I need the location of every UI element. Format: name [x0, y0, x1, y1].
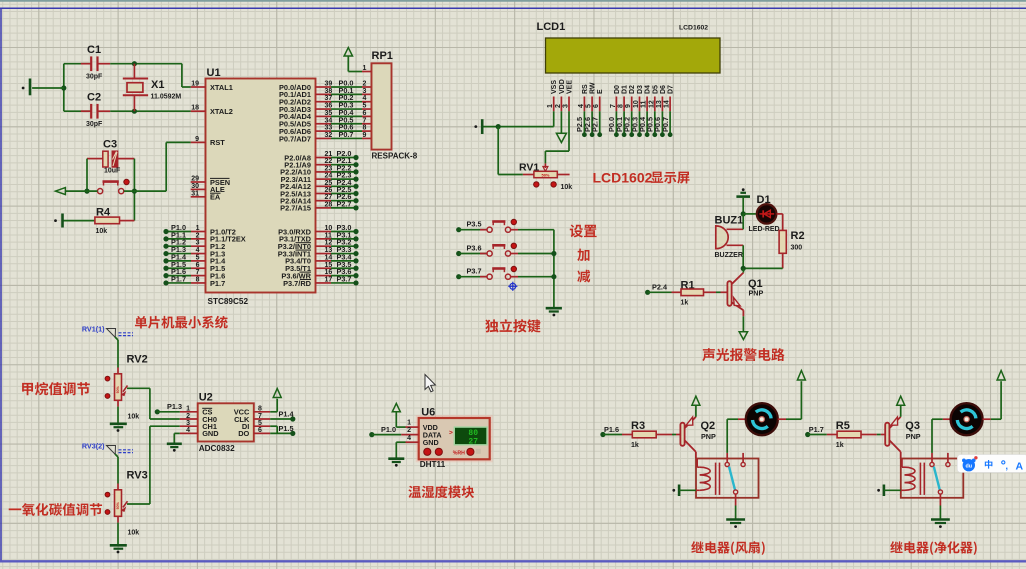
svg-text:3: 3	[563, 104, 570, 108]
label 单片机最小系统	[135, 316, 228, 329]
svg-text:37: 37	[325, 95, 333, 102]
wire U2 VCC to power	[270, 389, 281, 412]
svg-text:STC89C52: STC89C52	[208, 297, 249, 306]
svg-text:LCD1: LCD1	[537, 21, 566, 33]
capacitor C3 10uF	[87, 139, 134, 175]
svg-text:P3.5: P3.5	[467, 220, 482, 229]
svg-text:36: 36	[325, 103, 333, 110]
svg-text:ADC0832: ADC0832	[199, 444, 235, 453]
svg-text:C2: C2	[87, 92, 101, 104]
svg-text:15: 15	[325, 262, 333, 269]
svg-text:VEE: VEE	[567, 80, 574, 94]
svg-text:4: 4	[578, 104, 585, 108]
label 设置	[570, 224, 597, 237]
svg-text:P2.7: P2.7	[336, 199, 351, 208]
svg-text:3: 3	[363, 88, 367, 95]
svg-text:P1.3: P1.3	[167, 402, 182, 411]
svg-text:6: 6	[363, 110, 367, 117]
ground left of R4	[54, 214, 62, 228]
svg-text:>: >	[449, 429, 453, 436]
left arrow terminal at reset	[56, 188, 98, 195]
LCD1 label	[537, 21, 566, 33]
svg-text:2: 2	[407, 427, 411, 434]
mouse cursor	[425, 375, 435, 392]
svg-text:VDD: VDD	[559, 79, 566, 94]
U1 P3 pins with net labels	[316, 223, 359, 286]
resistor R1 1k	[645, 280, 727, 307]
voltage probe RV1(1)	[82, 325, 133, 338]
svg-text:PNP: PNP	[906, 432, 921, 441]
svg-text:VSS: VSS	[551, 80, 558, 94]
svg-text:7: 7	[258, 413, 262, 420]
svg-text:5: 5	[363, 103, 367, 110]
svg-text:C3: C3	[103, 139, 117, 151]
svg-text:9: 9	[625, 104, 632, 108]
svg-text:RW: RW	[590, 82, 597, 94]
svg-text:32: 32	[325, 132, 333, 139]
svg-text:12: 12	[325, 240, 333, 247]
RESPACK-8 label	[372, 152, 418, 161]
svg-text:29: 29	[191, 176, 199, 183]
wire RV2 wiper to ADC CH0	[127, 388, 180, 419]
svg-text:P0.7/AD7: P0.7/AD7	[279, 134, 311, 143]
wire U6 GND to ground	[388, 442, 405, 466]
svg-text:RV2: RV2	[127, 353, 148, 365]
label 加	[577, 249, 589, 261]
wire left vertical C1-C2	[61, 64, 66, 111]
svg-text:1: 1	[363, 65, 367, 72]
svg-text:PNP: PNP	[701, 432, 716, 441]
ground arrow below Q1	[739, 316, 747, 339]
svg-text:1k: 1k	[836, 442, 844, 449]
ground left of crystal	[22, 79, 64, 96]
svg-text:4: 4	[186, 427, 190, 434]
ADC0832 label	[199, 444, 235, 453]
svg-text:%RH: %RH	[453, 450, 465, 456]
svg-text:P2.7: P2.7	[591, 117, 600, 132]
svg-text:P3.7: P3.7	[336, 274, 351, 283]
svg-text:5: 5	[586, 104, 593, 108]
svg-text:P3.7: P3.7	[467, 267, 482, 276]
svg-text:7: 7	[363, 117, 367, 124]
capacitor C1	[81, 44, 110, 81]
svg-text:8: 8	[618, 104, 625, 108]
svg-text:30: 30	[191, 183, 199, 190]
svg-text:R5: R5	[836, 420, 850, 432]
LED D1 LED-RED	[743, 194, 783, 233]
svg-text:34: 34	[325, 117, 333, 124]
resistor pack RP1 body	[372, 63, 392, 149]
wire RV3 to ground	[117, 523, 119, 546]
U2 internal labels	[202, 408, 250, 439]
svg-text:24: 24	[325, 173, 333, 180]
wire P1.0 to U6 DATA	[369, 425, 401, 437]
svg-text:23: 23	[325, 165, 333, 172]
wire C1 row	[64, 63, 91, 65]
DHT11 green display	[454, 427, 487, 446]
relay purifier driver block (Q3, R5, RL2, motor)	[805, 371, 1005, 555]
svg-text:P1.7: P1.7	[210, 279, 225, 288]
wire U2 CLK to P1.4	[270, 409, 295, 421]
svg-text:28: 28	[325, 201, 333, 208]
svg-text:P3.6: P3.6	[467, 243, 482, 252]
svg-text:9: 9	[363, 132, 367, 139]
wire probe to RV3	[115, 454, 118, 484]
svg-text:14: 14	[325, 254, 333, 261]
svg-text:10k: 10k	[96, 228, 108, 235]
svg-text:10k: 10k	[128, 413, 140, 420]
svg-text:10k: 10k	[128, 529, 140, 536]
svg-text:P1.7: P1.7	[171, 274, 186, 283]
svg-text:50%: 50%	[116, 501, 120, 509]
svg-text:1k: 1k	[631, 442, 639, 449]
svg-text:30pF: 30pF	[86, 74, 103, 81]
svg-text:U2: U2	[199, 392, 213, 404]
svg-text:10k: 10k	[561, 184, 573, 191]
U1 P2 pins with net labels	[316, 149, 359, 210]
LCD VDD wire to power-down terminal	[556, 111, 566, 142]
wire buzzer top to junction	[742, 214, 744, 229]
svg-text:DHT11: DHT11	[420, 460, 446, 469]
svg-text:13: 13	[656, 100, 663, 108]
svg-text:du: du	[966, 464, 973, 470]
U1 internal pin labels	[210, 83, 312, 288]
svg-text:30pF: 30pF	[86, 121, 103, 128]
svg-text:10: 10	[325, 225, 333, 232]
svg-text:U1: U1	[207, 67, 221, 79]
wire P1.3 to U2 CS	[155, 402, 182, 414]
svg-text:33: 33	[325, 125, 333, 132]
svg-text:XTAL1: XTAL1	[210, 83, 233, 92]
button common bus wire	[551, 230, 556, 309]
svg-text:4: 4	[196, 247, 200, 254]
push button P3.7 (减)	[456, 266, 554, 279]
svg-text:21: 21	[325, 151, 333, 158]
relay fan driver block (Q2, R3, RL1, fan motor)	[600, 371, 805, 555]
svg-text:D5: D5	[652, 85, 659, 94]
ground below buttons	[546, 308, 562, 316]
label 一氧化碳值调节	[9, 503, 102, 516]
svg-text:P1.0: P1.0	[381, 425, 396, 434]
svg-text:27: 27	[468, 437, 478, 446]
resistor R2 300	[779, 214, 804, 269]
svg-text:LED-RED: LED-RED	[749, 226, 780, 233]
svg-text:1: 1	[407, 420, 411, 427]
svg-text:RV3: RV3	[127, 469, 148, 481]
svg-text:RST: RST	[210, 138, 225, 147]
svg-text:22: 22	[325, 158, 333, 165]
label 减	[577, 270, 590, 283]
U6 internal labels	[423, 423, 453, 447]
svg-text:P1.5: P1.5	[279, 424, 294, 433]
voltage probe RV3(2)	[82, 442, 133, 455]
U2 pin stubs and numbers	[180, 406, 270, 435]
svg-text:10uF: 10uF	[104, 168, 121, 175]
svg-text:50%: 50%	[541, 173, 549, 178]
svg-text:27: 27	[325, 194, 333, 201]
wire C2 to XTAL2	[110, 109, 191, 114]
svg-text:6: 6	[258, 427, 262, 434]
svg-text:XTAL2: XTAL2	[210, 107, 233, 116]
svg-text:BUZZER: BUZZER	[715, 252, 743, 259]
ADC U2 ADC0832 body	[198, 403, 254, 441]
svg-text:RP1: RP1	[372, 50, 393, 62]
svg-text:10: 10	[633, 100, 640, 108]
svg-text:7: 7	[610, 104, 617, 108]
svg-text:BUZ1: BUZ1	[715, 215, 744, 227]
LCD VEE wire to RV1 wiper	[545, 111, 569, 163]
capacitor C2	[64, 92, 110, 129]
ground below RV2	[110, 424, 127, 432]
svg-text:19: 19	[191, 81, 199, 88]
DHT11 label	[420, 460, 446, 469]
svg-text:1k: 1k	[681, 300, 689, 307]
svg-text:11.0592M: 11.0592M	[151, 94, 182, 101]
potentiometer RV1 10k	[519, 162, 572, 192]
svg-text:P1.7: P1.7	[809, 425, 824, 434]
wire C3 right vertical	[132, 159, 137, 221]
svg-text:3: 3	[196, 240, 200, 247]
svg-text:11: 11	[325, 232, 333, 239]
svg-text:2: 2	[363, 81, 367, 88]
svg-text:35: 35	[325, 110, 333, 117]
wire ground junction to RV1	[498, 127, 523, 175]
label 温湿度模块	[408, 486, 474, 499]
LCD data/control wires with net labels	[575, 111, 672, 137]
svg-text:LCD1602: LCD1602	[679, 25, 708, 32]
transistor Q1 PNP	[727, 268, 763, 316]
reset button	[98, 179, 130, 193]
svg-text:X1: X1	[151, 79, 164, 91]
svg-text:17: 17	[325, 276, 333, 283]
crystal X1	[123, 64, 182, 111]
svg-text:RESPACK-8: RESPACK-8	[372, 152, 418, 161]
svg-text:4: 4	[407, 435, 411, 442]
STC89C52 label	[208, 297, 249, 306]
wire C3 left vertical	[84, 159, 89, 194]
U6 label	[421, 407, 435, 419]
svg-text:2: 2	[555, 104, 562, 108]
label 声光报警电路	[702, 348, 784, 361]
svg-text:8: 8	[196, 276, 200, 283]
MCU U1 STC89C52 body	[206, 79, 316, 293]
potentiometer RV2 10k	[105, 353, 148, 420]
svg-text:8: 8	[363, 125, 367, 132]
svg-text:39: 39	[325, 81, 333, 88]
potentiometer RV3 10k	[105, 469, 148, 536]
svg-text:3: 3	[186, 420, 190, 427]
ground for LCD VSS	[474, 119, 482, 134]
svg-text:7: 7	[196, 269, 200, 276]
push button P3.5 (设置)	[456, 219, 554, 232]
wire U2 DI/DO to P1.5	[270, 424, 295, 436]
svg-text:P1.6: P1.6	[604, 425, 619, 434]
svg-text:C1: C1	[87, 44, 101, 56]
svg-text:8: 8	[258, 406, 262, 413]
svg-text:P0.7: P0.7	[338, 130, 353, 139]
label 甲烷值调节	[22, 382, 90, 395]
RP1 pin 1 wire to power	[344, 48, 371, 72]
LCD VSS wire to ground	[482, 111, 554, 129]
U1 P0 bus wires to RP1	[316, 79, 372, 139]
U1 label	[207, 67, 221, 79]
ground below RV3	[110, 545, 127, 553]
wire C1 to XTAL1	[110, 61, 191, 87]
svg-text:PNP: PNP	[749, 289, 764, 298]
svg-text:R2: R2	[791, 230, 805, 242]
LCD pin stubs and rotated labels	[547, 79, 674, 111]
svg-text:RS: RS	[582, 84, 589, 94]
svg-text:GND: GND	[423, 438, 439, 447]
svg-text:12: 12	[648, 100, 655, 108]
svg-text:5: 5	[258, 420, 262, 427]
svg-text:Q3: Q3	[905, 420, 920, 432]
RP1 label	[372, 50, 393, 62]
svg-text:5: 5	[196, 254, 200, 261]
svg-text:13: 13	[325, 247, 333, 254]
svg-text:R3: R3	[631, 420, 645, 432]
svg-text:1: 1	[196, 225, 200, 232]
wire U6 VDD to power	[392, 403, 405, 427]
U1 P1.0-P1.7 pins with net labels	[163, 223, 205, 286]
svg-text:D3: D3	[637, 85, 644, 94]
svg-text:D7: D7	[668, 85, 675, 94]
wire button to RST	[124, 142, 191, 191]
wire probe to RV2	[115, 337, 118, 368]
svg-text:2: 2	[196, 232, 200, 239]
svg-text:Q2: Q2	[701, 420, 716, 432]
svg-text:26: 26	[325, 187, 333, 194]
label 独立按键	[485, 319, 540, 332]
svg-text:25: 25	[325, 180, 333, 187]
LCD1602 type label	[679, 25, 708, 32]
svg-text:A: A	[1016, 460, 1024, 472]
wire buzzer bottom to collector junction	[741, 245, 783, 271]
Baidu IME toolbar popup	[957, 455, 1026, 473]
svg-text:P3.7/RD: P3.7/RD	[283, 279, 312, 288]
svg-text:P0.7: P0.7	[661, 117, 670, 132]
svg-text:11: 11	[641, 100, 648, 108]
svg-text:9: 9	[195, 136, 199, 143]
svg-text:300: 300	[791, 245, 803, 252]
blue origin crosshair	[508, 282, 517, 291]
svg-text:,: ,	[1006, 461, 1009, 471]
svg-text:1: 1	[547, 104, 554, 108]
svg-text:50%: 50%	[116, 385, 120, 393]
push button P3.6 (加)	[456, 243, 554, 256]
svg-text:D1: D1	[622, 85, 629, 94]
svg-text:LCD1602: LCD1602	[593, 169, 653, 185]
svg-text:D0: D0	[614, 85, 621, 94]
svg-text:U6: U6	[421, 407, 435, 419]
svg-text:16: 16	[325, 269, 333, 276]
svg-text:2: 2	[186, 413, 190, 420]
svg-text:E: E	[597, 89, 604, 94]
svg-text:GND: GND	[202, 429, 219, 438]
label LCD1602显示屏	[593, 169, 690, 185]
svg-text:14: 14	[664, 100, 671, 108]
svg-text:6: 6	[196, 262, 200, 269]
svg-text:RV3(2): RV3(2)	[82, 442, 105, 451]
svg-text:P1.4: P1.4	[279, 409, 295, 418]
svg-text:EA: EA	[210, 193, 221, 202]
inverted ground above buzzer	[736, 188, 750, 216]
wire U2 GND to ground	[167, 433, 182, 451]
svg-text:D4: D4	[645, 85, 652, 94]
svg-text:31: 31	[191, 190, 199, 197]
svg-text:18: 18	[191, 105, 199, 112]
svg-text:D6: D6	[660, 85, 667, 94]
U6 pin rows	[401, 420, 419, 443]
DHT11 selection highlight	[416, 415, 493, 462]
svg-text:6: 6	[593, 104, 600, 108]
svg-text:1: 1	[186, 406, 190, 413]
svg-text:38: 38	[325, 88, 333, 95]
DHT11 U6 body	[419, 418, 490, 459]
U2 label	[199, 392, 213, 404]
wire RV3 wiper to ADC CH1	[127, 426, 180, 504]
buzzer BUZ1	[715, 215, 744, 260]
svg-text:D2: D2	[629, 85, 636, 94]
svg-text:P2.7/A15: P2.7/A15	[280, 204, 311, 213]
svg-text:4: 4	[363, 95, 367, 102]
svg-text:DO: DO	[238, 429, 249, 438]
svg-text:RV1(1): RV1(1)	[82, 325, 105, 334]
LCD screen body	[546, 38, 721, 73]
DHT11 buttons and %RH	[424, 448, 481, 456]
resistor R4 10k	[63, 207, 135, 236]
wire RV2 to ground	[117, 407, 119, 424]
svg-text:P2.4: P2.4	[652, 282, 668, 291]
U1 left pin stubs 19/18/9/29/30/31	[191, 81, 206, 198]
